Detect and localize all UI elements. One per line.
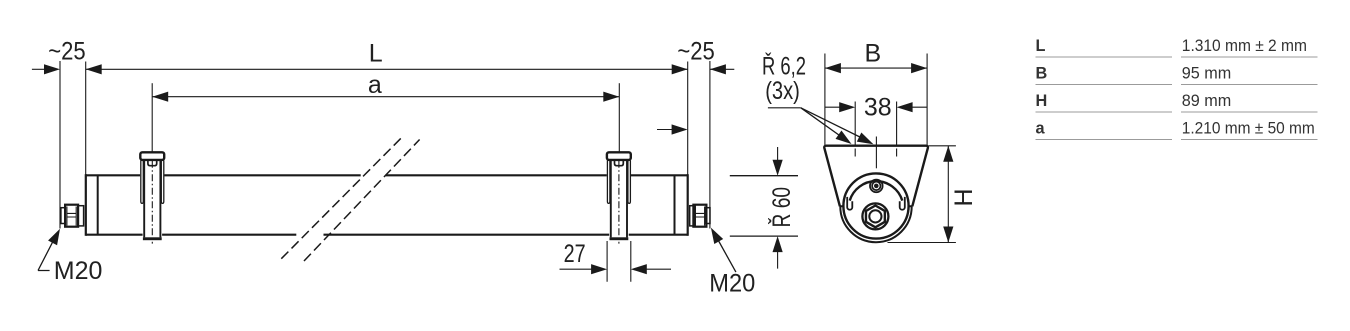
M20 gland right body	[693, 205, 706, 227]
R60 extension lines	[730, 176, 798, 236]
dimension a line y=96.7	[152, 96, 619, 98]
bracket 2 right clamp arm	[628, 160, 631, 203]
extension line bracket2 center x=618.8	[618, 83, 620, 152]
svg-text:1.210 mm ± 50 mm: 1.210 mm ± 50 mm	[1182, 119, 1315, 137]
table rule row1	[1036, 56, 1318, 58]
bracket 2 screw pocket	[615, 160, 624, 165]
dimension B extension lines	[825, 54, 927, 146]
bracket 2 strap left line	[610, 160, 612, 237]
bracket 1 centerline	[151, 161, 153, 244]
svg-text:95 mm: 95 mm	[1182, 64, 1232, 82]
table rule row3	[1036, 111, 1318, 113]
outer shell arc	[840, 207, 911, 243]
tube right end edge	[687, 174, 689, 236]
hex nut outer circle	[862, 203, 888, 229]
tube right cap inner line	[674, 175, 676, 234]
svg-text:Ř 60: Ř 60	[767, 187, 796, 228]
svg-text:L: L	[369, 39, 383, 67]
hex nut inner circle	[869, 210, 881, 222]
leader arrow to hole 2	[801, 108, 870, 142]
bracket 1 left clamp arm	[141, 160, 144, 203]
dimension 27 line left	[560, 268, 592, 270]
leader arrow to hole 1	[801, 108, 848, 142]
tray hook right	[900, 197, 905, 210]
bracket 1 foot	[143, 237, 162, 240]
arrowhead left ~25 outer (points right, tip x=60)	[44, 64, 60, 74]
svg-text:M20: M20	[54, 257, 103, 285]
leader underline for R6,2	[768, 107, 801, 109]
M20 gland left tip	[61, 208, 65, 224]
inner gear tray arc	[850, 181, 903, 200]
svg-text:a: a	[368, 71, 382, 99]
bracket 1 right clamp arm	[161, 160, 164, 203]
bracket 2 foot	[610, 237, 629, 240]
M20 gland left body	[65, 205, 78, 227]
housing trapezoid	[824, 146, 928, 207]
table rule row4	[1036, 139, 1318, 141]
svg-text:89 mm: 89 mm	[1182, 92, 1232, 110]
svg-text:a: a	[1036, 119, 1046, 137]
svg-text:H: H	[950, 188, 978, 206]
svg-text:1.310 mm ± 2 mm: 1.310 mm ± 2 mm	[1182, 37, 1307, 55]
tray hook left	[847, 197, 852, 210]
hex nut hexagon	[866, 206, 885, 228]
tube top outline	[86, 174, 688, 176]
svg-text:27: 27	[564, 240, 586, 268]
extension line tube left edge x=85.7	[85, 62, 87, 176]
H dimension line	[947, 146, 949, 243]
dimension 27 line right	[646, 268, 671, 270]
center hole centerline	[875, 137, 877, 169]
leader M20 right	[715, 234, 736, 273]
tube left cap inner line	[97, 175, 99, 234]
svg-text:(3x): (3x)	[765, 77, 800, 105]
table rule row2	[1036, 84, 1318, 86]
H extension lines	[888, 146, 956, 243]
bracket 2 cap	[607, 152, 631, 160]
svg-text:H: H	[1036, 92, 1048, 110]
arrowhead L right (points right, tip x=687.7)	[672, 64, 688, 74]
extension line bracket1 center x=152.2	[151, 83, 153, 152]
svg-text:B: B	[864, 40, 881, 68]
bracket 2 strap right line	[626, 160, 628, 237]
M20 gland left hex lines	[67, 207, 76, 226]
M20 gland left collar	[78, 206, 84, 226]
svg-text:M20: M20	[709, 270, 755, 298]
R60 dimension lines + arrows	[777, 147, 779, 269]
break line dashed 1	[281, 138, 401, 259]
arrowhead a left (tip x=152.2)	[152, 92, 168, 102]
dimension 27 extension lines	[607, 241, 631, 282]
svg-text:~25: ~25	[48, 37, 85, 65]
tube left end edge	[85, 174, 87, 236]
hole centerline dashes	[855, 149, 896, 159]
extension line right gland tip x=709.9	[709, 61, 711, 229]
bracket 2 centerline	[618, 161, 620, 244]
leader M20 left	[38, 236, 56, 271]
dimension line y=69 (left ~25 / L / right ~25)	[32, 68, 734, 70]
svg-text:38: 38	[864, 94, 892, 122]
dimension 38 extension lines	[855, 102, 896, 147]
M20 gland right tip	[706, 208, 710, 224]
tube circle	[843, 173, 908, 238]
screw top	[870, 180, 883, 193]
svg-text:B: B	[1036, 64, 1048, 82]
M20 gland right collar	[690, 206, 696, 226]
arrowhead L left (points left, tip x=85.7)	[86, 64, 102, 74]
arrowhead right ~25 outer (points left, tip x=709.9)	[710, 64, 726, 74]
bracket 1 screw pocket	[148, 160, 157, 165]
extension line left gland tip x=60	[59, 61, 61, 229]
bracket 1 strap right line	[159, 160, 161, 237]
tube bottom outline	[86, 234, 688, 236]
extension line tube right edge x=687.7	[687, 62, 689, 176]
housing wings	[840, 205, 913, 207]
reference arrow at tube right edge y=129.5	[657, 129, 674, 131]
dimension 38 lines	[825, 106, 927, 108]
bracket 1 cap	[140, 152, 164, 160]
bracket 1 strap left line	[143, 160, 145, 237]
break line dashed 2	[304, 140, 420, 262]
arrowhead a right (tip x=618.8)	[603, 92, 619, 102]
svg-text:L: L	[1036, 37, 1046, 55]
dimension B line	[825, 67, 927, 69]
M20 gland right hex lines	[695, 207, 704, 226]
bracket 2 left clamp arm	[607, 160, 610, 203]
svg-text:~25: ~25	[677, 37, 714, 65]
